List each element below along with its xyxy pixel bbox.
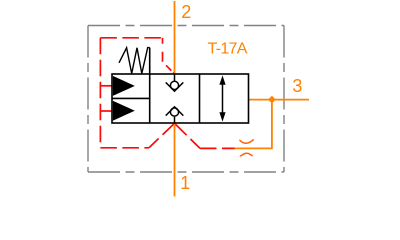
svg-text:1: 1 [180,173,190,193]
svg-text:3: 3 [292,76,302,96]
svg-text:T-17A: T-17A [208,40,248,57]
svg-text:2: 2 [181,2,191,22]
